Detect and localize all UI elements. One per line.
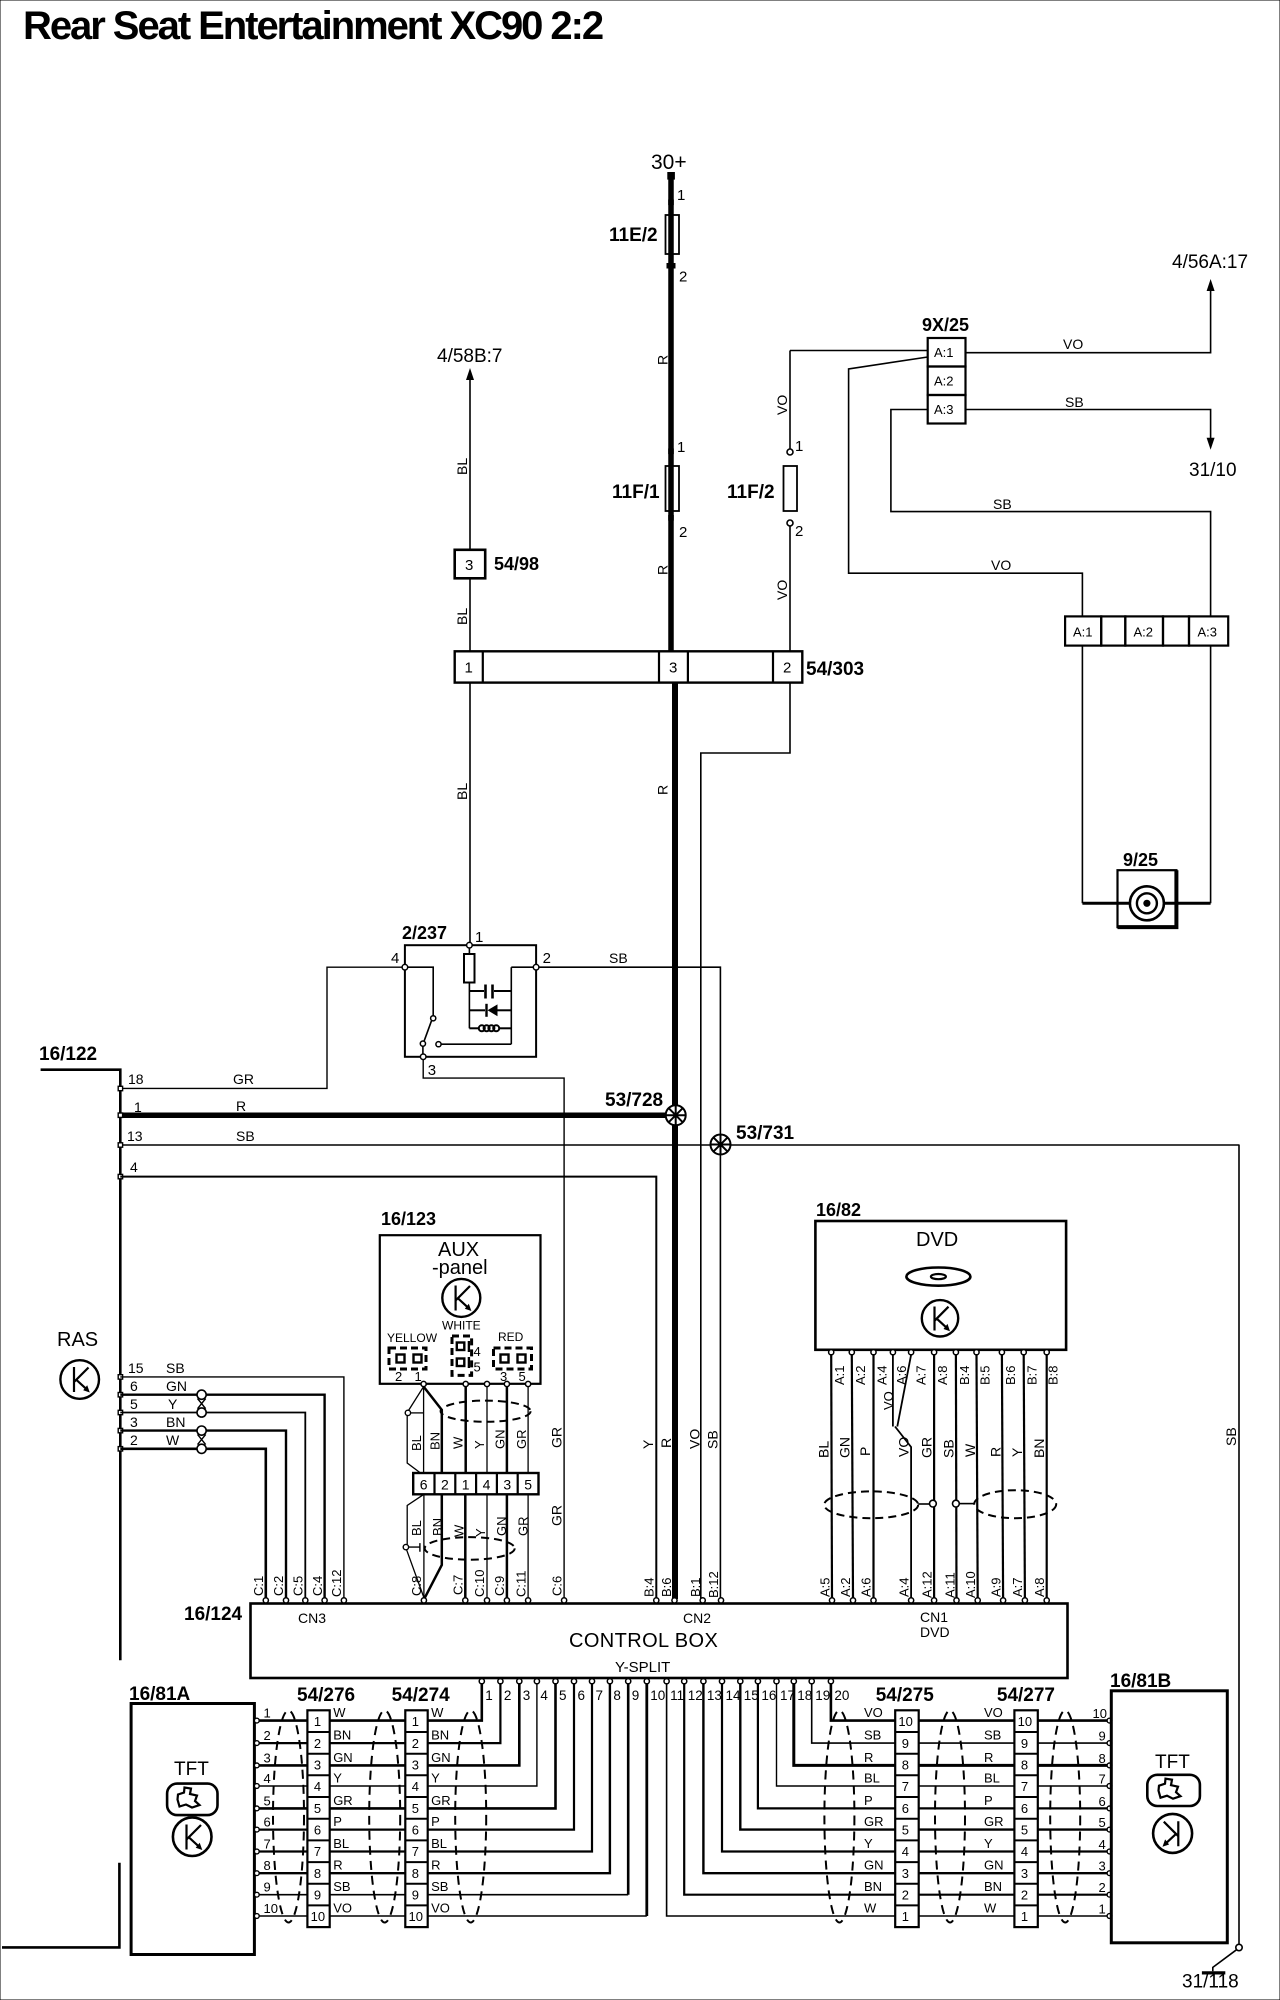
control box pin	[932, 1598, 937, 1603]
svg-text:5: 5	[1021, 1823, 1028, 1838]
svg-text:30+: 30+	[651, 151, 687, 174]
svg-text:2: 2	[783, 660, 791, 677]
wire VO from Y-SPLIT pin 20	[831, 1684, 895, 1721]
pin 2 of fuse 11F/1	[668, 515, 674, 521]
control box pin	[526, 1598, 531, 1603]
svg-text:2: 2	[679, 524, 687, 541]
svg-text:10: 10	[1018, 1714, 1032, 1729]
svg-text:BN: BN	[430, 1518, 445, 1536]
pin 2 of 16/122	[118, 1447, 122, 1451]
svg-text:10: 10	[311, 1909, 325, 1924]
svg-text:54/98: 54/98	[494, 554, 539, 574]
svg-text:GR: GR	[515, 1517, 530, 1537]
svg-text:SB: SB	[705, 1430, 721, 1449]
control box pin	[303, 1598, 308, 1603]
wire VO TFT 16/81A pin 10 to 54/276	[259, 1915, 307, 1917]
VO jog A:6/A:7	[892, 1355, 894, 1427]
svg-text:54/275: 54/275	[876, 1685, 935, 1706]
svg-text:A:7: A:7	[1010, 1577, 1025, 1597]
wire W 54/276 to 54/274 pin 1	[330, 1719, 406, 1722]
svg-text:9/25: 9/25	[1123, 850, 1158, 870]
wire GN pin 6 to control box C:4	[120, 1395, 324, 1599]
wire W 54/277 to TFT 16/81B pin 1	[1038, 1915, 1108, 1917]
svg-text:SB: SB	[1223, 1427, 1239, 1446]
display icon left	[167, 1784, 217, 1816]
shield ellipse DVD left	[824, 1491, 918, 1518]
svg-text:15: 15	[744, 1688, 759, 1703]
wire GR AUX	[527, 1387, 529, 1473]
svg-text:VO: VO	[333, 1901, 352, 1916]
svg-text:P: P	[333, 1814, 342, 1829]
pin 2 of 2/237	[533, 964, 539, 970]
svg-text:4: 4	[412, 1779, 419, 1794]
svg-text:BN: BN	[864, 1879, 882, 1894]
wire to antenna 9/25 right	[1210, 646, 1212, 904]
K symbol AUX	[442, 1279, 480, 1317]
svg-text:VO: VO	[774, 395, 790, 415]
pin 7 of 16/81A	[254, 1849, 259, 1854]
svg-text:3: 3	[523, 1688, 531, 1703]
svg-text:18: 18	[797, 1688, 812, 1703]
control box pin	[829, 1598, 834, 1603]
pin 2 of fuse 11F/2	[787, 520, 793, 526]
pin 7 of 16/81B	[1107, 1784, 1112, 1789]
svg-text:7: 7	[314, 1844, 321, 1859]
pin 2 of fuse 11E/2	[667, 263, 676, 269]
wire GN 54/277 to TFT 16/81B pin 3	[1038, 1872, 1108, 1874]
svg-text:BL: BL	[409, 1435, 424, 1451]
switch in 2/237	[405, 967, 433, 1015]
svg-text:Y-SPLIT: Y-SPLIT	[615, 1659, 670, 1676]
svg-text:R: R	[655, 355, 671, 365]
control box pin	[975, 1598, 980, 1603]
svg-text:Y: Y	[431, 1771, 440, 1786]
fuse 11F/1	[666, 466, 680, 511]
diode in 2/237	[469, 1009, 485, 1011]
wire SB node to control box B:12	[719, 1155, 721, 1600]
svg-text:BL: BL	[409, 1520, 424, 1536]
svg-text:7: 7	[264, 1837, 271, 1852]
svg-text:10: 10	[264, 1901, 278, 1916]
control box pin	[954, 1598, 959, 1603]
twisted cable ellipse	[369, 1711, 400, 1923]
svg-text:R: R	[655, 785, 671, 795]
pin 4 of 2/237	[402, 964, 408, 970]
wire GR from Y-SPLIT pin 15	[740, 1684, 895, 1830]
svg-text:RAS: RAS	[57, 1329, 98, 1351]
pin 5 of control box Y-SPLIT	[553, 1679, 558, 1684]
wire GR relay pin3 to control box C:6	[423, 1060, 564, 1599]
pin 1 of 2/237	[467, 942, 473, 948]
control box pin	[700, 1598, 705, 1603]
svg-text:YELLOW: YELLOW	[387, 1331, 438, 1345]
svg-text:SB: SB	[431, 1879, 448, 1894]
svg-text:A:9: A:9	[988, 1577, 1003, 1597]
svg-text:GN: GN	[864, 1858, 884, 1873]
svg-text:1: 1	[264, 1706, 271, 1721]
svg-text:CN2: CN2	[683, 1610, 711, 1626]
wire BN from Y-SPLIT pin 12	[684, 1684, 895, 1895]
wire BL 54/276 to 54/274 pin 7	[330, 1850, 406, 1852]
wire R 54/277 to TFT 16/81B pin 8	[1038, 1764, 1108, 1767]
wire SB 54/276 to 54/274 pin 9	[330, 1894, 406, 1896]
svg-text:1: 1	[677, 187, 685, 204]
wire GN from Y-SPLIT pin 3	[428, 1684, 520, 1766]
svg-text:8: 8	[1099, 1751, 1106, 1766]
svg-text:8: 8	[412, 1866, 419, 1881]
twisted cable ellipse	[935, 1711, 965, 1923]
svg-text:R: R	[658, 1438, 674, 1448]
wire BL 54/303 pin1 to relay 2/237 pin 1	[469, 683, 471, 943]
pin 9 of control box Y-SPLIT	[626, 1679, 631, 1684]
wire GR 54/277 to TFT 16/81B pin 5	[1038, 1828, 1108, 1830]
wire P from Y-SPLIT pin 6	[428, 1684, 574, 1830]
wire BL lower	[407, 1494, 424, 1544]
pin 16 of control box Y-SPLIT	[755, 1679, 760, 1684]
wire P from Y-SPLIT pin 16	[758, 1684, 895, 1809]
svg-text:BL: BL	[984, 1771, 1000, 1786]
svg-text:GN: GN	[333, 1750, 353, 1765]
svg-text:A:2: A:2	[934, 374, 954, 389]
svg-text:A:3: A:3	[1198, 625, 1218, 640]
wire W from Y-SPLIT pin 1	[428, 1684, 482, 1721]
svg-text:C:11: C:11	[513, 1571, 528, 1598]
wire R thick 54/303 pin3 down to control box B:6	[672, 683, 678, 1599]
svg-text:2: 2	[795, 523, 803, 540]
svg-text:31/118: 31/118	[1182, 1972, 1239, 1993]
svg-text:1: 1	[795, 438, 803, 455]
svg-text:1: 1	[314, 1714, 321, 1729]
pin 6 of control box Y-SPLIT	[571, 1679, 576, 1684]
svg-text:GN: GN	[166, 1378, 187, 1394]
svg-text:13: 13	[707, 1688, 722, 1703]
svg-text:18: 18	[128, 1071, 144, 1087]
svg-text:CN1: CN1	[920, 1609, 948, 1625]
wire W lower	[464, 1494, 467, 1597]
pin 12 of control box Y-SPLIT	[682, 1679, 687, 1684]
svg-text:BN: BN	[431, 1728, 449, 1743]
svg-text:VO: VO	[984, 1705, 1003, 1720]
svg-text:6: 6	[264, 1815, 271, 1830]
pin 3 of 2/237	[420, 1054, 426, 1060]
ground 31/118	[1202, 1971, 1225, 1974]
svg-text:9: 9	[412, 1888, 419, 1903]
pin 6 of 16/81B	[1107, 1806, 1112, 1811]
svg-text:Y: Y	[472, 1440, 487, 1449]
control box pin	[263, 1598, 268, 1603]
pin 5 of 16/81B	[1107, 1827, 1112, 1832]
wire BL from Y-SPLIT pin 7	[428, 1684, 592, 1852]
svg-text:6: 6	[412, 1823, 419, 1838]
wire P 54/275 to 54/277 pin 6	[919, 1807, 1015, 1809]
pin 13 of control box Y-SPLIT	[701, 1679, 706, 1684]
svg-text:5: 5	[1099, 1815, 1106, 1830]
svg-text:DVD: DVD	[920, 1624, 950, 1640]
svg-text:A:1: A:1	[832, 1365, 847, 1385]
svg-text:B:4: B:4	[642, 1577, 657, 1597]
svg-text:6: 6	[578, 1688, 586, 1703]
wire W TFT 16/81A pin 1 to 54/276	[259, 1719, 307, 1722]
svg-text:R: R	[988, 1447, 1004, 1457]
svg-text:P: P	[864, 1793, 873, 1808]
svg-text:BL: BL	[816, 1441, 832, 1458]
pin 17 of control box Y-SPLIT	[774, 1679, 779, 1684]
svg-text:R: R	[431, 1858, 440, 1873]
svg-text:GN: GN	[836, 1437, 852, 1458]
svg-text:BN: BN	[428, 1432, 443, 1450]
wire BN lower	[425, 1494, 442, 1597]
svg-text:4: 4	[474, 1344, 481, 1359]
pin 5 of 16/81A	[254, 1806, 259, 1811]
svg-text:9: 9	[902, 1736, 909, 1751]
wire SB from Y-SPLIT pin 19	[812, 1684, 896, 1743]
pin 9 of 16/81A	[254, 1892, 259, 1897]
svg-text:7: 7	[412, 1844, 419, 1859]
svg-text:BL: BL	[431, 1836, 447, 1851]
wire GN 54/275 to 54/277 pin 3	[919, 1872, 1015, 1874]
svg-text:16: 16	[761, 1688, 776, 1703]
svg-text:1: 1	[677, 439, 685, 456]
pin 1 of fuse 11F/1	[668, 449, 674, 455]
svg-text:TFT: TFT	[1155, 1752, 1190, 1773]
pin 4 of 16/81A	[254, 1784, 259, 1789]
svg-text:C:5: C:5	[291, 1576, 306, 1596]
svg-text:2: 2	[130, 1432, 138, 1448]
svg-text:6: 6	[1021, 1801, 1028, 1816]
svg-text:10: 10	[409, 1909, 423, 1924]
wire VO 54/276 to 54/274 pin 10	[330, 1915, 406, 1917]
wire GR lower	[527, 1494, 529, 1597]
svg-text:B:12: B:12	[706, 1571, 721, 1598]
wire Y 54/275 to 54/277 pin 4	[919, 1850, 1015, 1852]
svg-text:P: P	[857, 1447, 873, 1456]
wire SB 54/277 to TFT 16/81B pin 9	[1038, 1742, 1108, 1744]
svg-text:A:12: A:12	[919, 1571, 934, 1598]
svg-text:DVD: DVD	[916, 1229, 958, 1251]
svg-text:2/237: 2/237	[402, 923, 447, 943]
pin 1 of fuse 11F/2	[787, 449, 793, 455]
svg-text:10: 10	[898, 1714, 912, 1729]
svg-text:3: 3	[902, 1866, 909, 1881]
wire GR relay pin4 to 16/122 pin 18	[120, 967, 402, 1088]
svg-text:4: 4	[483, 1477, 491, 1493]
svg-text:W: W	[984, 1901, 997, 1916]
wire BN 54/275 to 54/277 pin 2	[919, 1894, 1015, 1896]
svg-text:13: 13	[127, 1128, 143, 1144]
svg-text:2: 2	[543, 950, 551, 967]
svg-text:53/728: 53/728	[605, 1090, 663, 1111]
wire SB TFT 16/81A pin 9 to 54/276	[259, 1894, 307, 1896]
svg-text:9: 9	[314, 1888, 321, 1903]
svg-text:3: 3	[1099, 1859, 1106, 1874]
pin 4 of 16/122	[118, 1174, 122, 1178]
svg-text:A:6: A:6	[859, 1577, 874, 1597]
svg-text:16/123: 16/123	[381, 1209, 436, 1229]
svg-text:10: 10	[1093, 1706, 1107, 1721]
svg-text:31/10: 31/10	[1189, 460, 1237, 481]
control box pin	[672, 1598, 677, 1603]
svg-text:9X/25: 9X/25	[922, 315, 969, 335]
svg-text:BN: BN	[984, 1879, 1002, 1894]
wire R 54/276 to 54/274 pin 8	[330, 1872, 406, 1874]
svg-text:1: 1	[475, 929, 483, 946]
svg-text:6: 6	[1099, 1794, 1106, 1809]
K symbol TFT right (mirrored)	[1153, 1814, 1192, 1853]
svg-text:A:2: A:2	[838, 1577, 853, 1597]
display icon right	[1147, 1775, 1200, 1806]
svg-text:14: 14	[726, 1688, 742, 1703]
svg-text:Y: Y	[473, 1528, 488, 1537]
wire VO 54/275 to 54/277 pin 10	[919, 1719, 1015, 1722]
wire Y pin 5 to control box C:5	[120, 1413, 305, 1600]
pin 2 of control box Y-SPLIT	[498, 1679, 503, 1684]
pin 10 of control box Y-SPLIT	[644, 1679, 649, 1684]
wire GR 54/275 to 54/277 pin 5	[919, 1828, 1015, 1830]
disc symbol	[906, 1268, 970, 1286]
svg-text:GR: GR	[431, 1793, 451, 1808]
pin 1 of control box Y-SPLIT	[479, 1679, 484, 1684]
svg-text:5: 5	[314, 1801, 321, 1816]
svg-text:GN: GN	[984, 1858, 1004, 1873]
svg-text:3: 3	[503, 1477, 511, 1493]
svg-text:A:4: A:4	[875, 1365, 890, 1385]
svg-text:R: R	[864, 1750, 873, 1765]
pin 7 of control box Y-SPLIT	[589, 1679, 594, 1684]
svg-text:B:4: B:4	[957, 1365, 972, 1385]
control box pin	[871, 1598, 876, 1603]
svg-text:B:6: B:6	[1003, 1365, 1018, 1385]
node 4/56A:17 arrow	[1207, 279, 1215, 291]
svg-text:C:1: C:1	[251, 1576, 266, 1596]
svg-text:6: 6	[902, 1801, 909, 1816]
svg-text:Y: Y	[640, 1439, 656, 1449]
wire BL from 54/98 to 54/303 pin 1	[469, 578, 471, 651]
svg-text:2: 2	[314, 1736, 321, 1751]
control box pin	[909, 1598, 914, 1603]
svg-text:11F/2: 11F/2	[727, 482, 775, 503]
svg-text:3: 3	[264, 1750, 271, 1765]
wire VO branch from A:1 down to antenna feed	[849, 357, 1083, 616]
node 31/10 arrow	[1207, 438, 1215, 450]
svg-text:W: W	[864, 1901, 877, 1916]
pin 10 of 16/81A	[254, 1914, 259, 1919]
svg-text:1: 1	[1099, 1902, 1106, 1917]
shield ellipse DVD right	[974, 1490, 1056, 1518]
control box pin	[850, 1598, 855, 1603]
wire SB 54/275 to 54/277 pin 9	[919, 1742, 1015, 1744]
svg-text:3: 3	[465, 557, 473, 574]
svg-text:B:5: B:5	[978, 1365, 993, 1385]
svg-text:B:8: B:8	[1046, 1365, 1061, 1385]
svg-text:3: 3	[428, 1062, 436, 1079]
svg-text:C:6: C:6	[549, 1576, 564, 1596]
svg-text:GR: GR	[919, 1437, 935, 1458]
svg-text:4: 4	[540, 1688, 548, 1703]
svg-text:4: 4	[264, 1771, 271, 1786]
svg-text:2: 2	[441, 1477, 449, 1493]
svg-text:8: 8	[314, 1866, 321, 1881]
wire GN AUX	[506, 1387, 509, 1473]
AUX pins	[421, 1381, 426, 1386]
svg-text:C:9: C:9	[492, 1576, 507, 1596]
svg-text:1: 1	[902, 1909, 909, 1924]
svg-text:GR: GR	[549, 1427, 565, 1448]
svg-text:W: W	[452, 1524, 467, 1537]
wire SB bus from 16/122 pin 13 to right edge	[120, 1144, 1239, 1146]
svg-text:4: 4	[314, 1779, 321, 1794]
svg-text:RED: RED	[498, 1330, 524, 1344]
svg-text:15: 15	[128, 1360, 144, 1376]
svg-text:BL: BL	[864, 1771, 880, 1786]
svg-text:1: 1	[465, 660, 473, 677]
svg-text:A:3: A:3	[934, 402, 954, 417]
svg-text:SB: SB	[984, 1728, 1001, 1743]
pin 9 of 16/81B	[1107, 1741, 1112, 1746]
wire GN lower	[506, 1494, 509, 1597]
svg-text:1: 1	[412, 1714, 419, 1729]
shield ellipse lower	[425, 1537, 515, 1560]
svg-text:4: 4	[1021, 1844, 1028, 1859]
svg-text:W: W	[962, 1443, 978, 1457]
svg-text:BL: BL	[454, 458, 470, 475]
wire Y TFT 16/81A pin 4 to 54/276	[259, 1785, 307, 1787]
svg-text:3: 3	[669, 660, 677, 677]
svg-text:8: 8	[264, 1858, 271, 1873]
wire BN 54/277 to TFT 16/81B pin 2	[1038, 1894, 1108, 1896]
svg-text:4/58B:7: 4/58B:7	[437, 346, 503, 367]
svg-text:BN: BN	[333, 1728, 351, 1743]
pin 1 of 16/81B	[1107, 1914, 1112, 1919]
control box pin	[1022, 1598, 1027, 1603]
svg-text:6: 6	[130, 1378, 138, 1394]
capacitor in 2/237	[469, 990, 484, 992]
K symbol TFT left	[173, 1817, 212, 1856]
control box pin	[718, 1598, 723, 1603]
svg-text:W: W	[166, 1432, 180, 1448]
svg-text:2: 2	[504, 1688, 512, 1703]
svg-text:16/124: 16/124	[184, 1604, 243, 1625]
twisted pair marker GN/Y	[197, 1390, 206, 1399]
pin 15 of 16/122	[118, 1375, 122, 1379]
wire Y from Y-SPLIT pin 14	[722, 1684, 895, 1852]
svg-text:A:8: A:8	[935, 1365, 950, 1385]
control box pin	[283, 1598, 288, 1603]
svg-text:WHITE: WHITE	[442, 1319, 481, 1333]
connector 54/98 pin 3	[455, 550, 486, 579]
pin 10 of 16/81B	[1107, 1718, 1112, 1723]
svg-text:11: 11	[670, 1688, 684, 1703]
svg-text:BN: BN	[166, 1414, 185, 1430]
svg-text:3: 3	[130, 1414, 138, 1430]
svg-text:GR: GR	[233, 1071, 254, 1087]
svg-text:2: 2	[902, 1888, 909, 1903]
svg-text:10: 10	[650, 1688, 665, 1703]
connector row 6 2 1 4 3 5	[413, 1473, 538, 1494]
svg-text:11F/1: 11F/1	[612, 482, 660, 503]
svg-text:P: P	[984, 1793, 993, 1808]
pin 6 of 16/122	[118, 1393, 122, 1397]
svg-text:TFT: TFT	[174, 1759, 209, 1780]
control box pin	[1044, 1598, 1049, 1603]
svg-text:GN: GN	[431, 1750, 451, 1765]
svg-text:B:1: B:1	[688, 1577, 703, 1597]
pin 1 of 16/81A	[254, 1718, 259, 1723]
svg-text:R: R	[333, 1858, 342, 1873]
svg-text:5: 5	[474, 1360, 481, 1375]
svg-text:9: 9	[1099, 1729, 1106, 1744]
svg-text:A:7: A:7	[914, 1365, 929, 1385]
svg-text:8: 8	[902, 1758, 909, 1773]
